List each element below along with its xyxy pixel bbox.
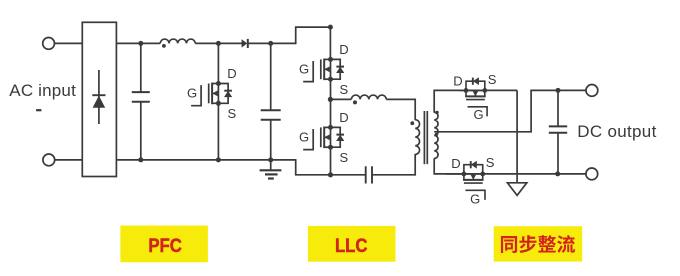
node: LLC top corner dot — [328, 25, 333, 30]
transistor Q2 (LLC high-side MOSFET) — [303, 57, 344, 82]
wire: top terminal to bridge — [55, 42, 83, 44]
svg-text:D: D — [227, 66, 236, 81]
svg-text:S: S — [486, 155, 495, 170]
transistor Q3 (LLC low-side MOSFET) — [303, 125, 344, 150]
wire: return rail to resonant cap — [331, 174, 366, 176]
wire: bottom terminal to bridge — [55, 159, 83, 161]
capacitor C1 (input filter cap) — [132, 43, 150, 159]
svg-text:G: G — [474, 107, 484, 122]
svg-text:S: S — [340, 150, 349, 165]
node: source to bottom rail — [216, 157, 221, 162]
polarity dot T1 primary — [410, 121, 414, 125]
diode D1 (boost diode) — [242, 39, 248, 47]
polarity dot of L1 — [162, 44, 166, 48]
node: PFC output junction — [268, 41, 273, 46]
svg-text:G: G — [299, 130, 309, 145]
node: PFC FET drain junction — [216, 41, 221, 46]
transformer T1 core — [424, 111, 427, 164]
node: Q3 source to return rail — [328, 172, 333, 177]
svg-text:G: G — [470, 192, 480, 207]
wire: secondary top lead — [434, 90, 466, 112]
wire: center tap to output — [434, 90, 586, 131]
label: minus — [36, 109, 41, 111]
node: C1 top — [138, 41, 143, 46]
wire: bottom rail — [116, 159, 295, 161]
svg-text:LLC: LLC — [335, 235, 368, 257]
svg-text:AC input: AC input — [9, 81, 76, 100]
wire: secondary bottom lead — [434, 158, 464, 174]
transformer T1 secondary winding — [434, 112, 438, 158]
wire: inductor to boost diode — [195, 42, 242, 44]
node: center tap dot — [435, 133, 438, 136]
wire: PFC FET drain — [217, 43, 219, 84]
svg-text:S: S — [340, 82, 349, 97]
ground (PFC primary ground) — [260, 160, 282, 179]
wire: Cr to transformer primary bottom — [372, 154, 415, 175]
transformer T1 primary winding — [415, 120, 419, 155]
svg-text:D: D — [339, 42, 348, 57]
svg-text:D: D — [339, 110, 348, 125]
polarity dot T1 secondary top — [435, 111, 438, 114]
terminal: DC output minus — [586, 168, 598, 180]
svg-text:G: G — [187, 86, 197, 101]
wire: Q2 source to midpoint — [330, 79, 332, 99]
label box: sync rect (Chinese) — [494, 226, 583, 261]
svg-text:S: S — [488, 72, 497, 87]
svg-text:S: S — [228, 106, 237, 121]
terminal: AC input top — [43, 38, 55, 50]
wire: Lr to transformer primary top — [386, 99, 415, 120]
ground: output (open triangle) — [507, 183, 526, 196]
wire: bottom output rail — [446, 173, 586, 175]
wire: PFC FET source — [217, 103, 219, 160]
label box: PFC — [120, 226, 207, 263]
node: output cap bottom junction — [555, 171, 560, 176]
capacitor C3 (output cap) — [549, 90, 567, 173]
wire: jog up to LLC top rail — [296, 27, 331, 44]
transistor Q1 (PFC MOSFET) — [191, 81, 232, 106]
capacitor Cr (resonant, series) — [366, 166, 372, 183]
wire: midpoint to resonant inductor — [330, 98, 351, 100]
terminal: DC output plus — [586, 85, 598, 97]
terminal: AC input bottom — [43, 154, 55, 166]
label box: LLC — [308, 226, 396, 262]
wire: Q3 source to bottom rail — [330, 147, 332, 175]
bridge rectifier box — [82, 22, 116, 176]
wire: Q4 source down to output return — [516, 90, 518, 182]
capacitor C2 (PFC bulk cap) — [261, 43, 281, 159]
transistor Q4 (sync rectifier top) — [464, 77, 488, 116]
node: C1 bottom — [138, 157, 143, 162]
wire: boost diode to jog up — [248, 42, 296, 44]
bridge rectifier diode — [92, 70, 105, 124]
transistor Q5 (sync rectifier bottom) — [462, 161, 486, 200]
wire: bottom rail jog down to LLC return — [296, 159, 331, 175]
inductor Lr (resonant) — [351, 95, 386, 99]
svg-text:D: D — [453, 73, 462, 88]
svg-text:DC output: DC output — [577, 122, 656, 141]
svg-text:G: G — [299, 62, 309, 77]
node: half-bridge midpoint — [328, 97, 333, 102]
wire: LLC top rail down to Q2 drain — [329, 27, 331, 60]
svg-text:PFC: PFC — [148, 235, 182, 257]
node: C2 bottom junction — [268, 157, 273, 162]
wire: top secondary rail through Q4 — [460, 89, 517, 91]
wire: top rail bridge to boost inductor — [116, 42, 160, 44]
inductor L1 (PFC boost choke) — [160, 39, 195, 43]
node: output cap top junction — [556, 88, 561, 93]
svg-text:D: D — [451, 156, 460, 171]
wire: midpoint down to Q3 drain — [330, 99, 332, 128]
polarity dot of Lr — [353, 100, 357, 104]
